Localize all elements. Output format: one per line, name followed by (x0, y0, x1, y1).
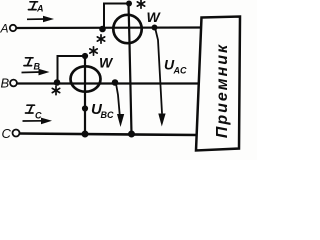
svg-text:C: C (35, 111, 42, 121)
svg-text:BC: BC (101, 110, 114, 120)
svg-text:C: C (2, 126, 12, 141)
svg-text:W: W (99, 55, 114, 71)
svg-text:W: W (147, 9, 162, 25)
svg-text:B: B (1, 76, 10, 91)
svg-text:A: A (0, 22, 9, 36)
svg-text:B: B (34, 62, 41, 72)
svg-text:AC: AC (173, 66, 187, 76)
svg-text:Приемник: Приемник (214, 43, 231, 138)
svg-text:A: A (36, 4, 44, 14)
